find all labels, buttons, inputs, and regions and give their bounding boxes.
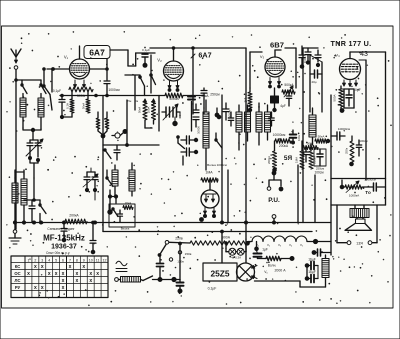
label PU <box>268 197 280 204</box>
IFT3 cap <box>269 112 275 126</box>
svg-text:900А: 900А <box>222 236 231 240</box>
capacitor 250cm <box>201 88 220 108</box>
svg-text:12: 12 <box>103 258 107 262</box>
filter cap 1 <box>305 258 318 270</box>
osc switch a <box>139 76 145 96</box>
tuning capacitor C1 section b <box>30 140 41 157</box>
svg-text:Вишка: Вишка <box>121 227 130 231</box>
wire x136 <box>128 53 155 66</box>
svg-text:x: x <box>75 278 78 284</box>
svg-text:500А: 500А <box>333 94 337 101</box>
svg-text:V₄: V₄ <box>335 53 340 58</box>
svg-text:6A7: 6A7 <box>89 48 105 58</box>
wire 43 plate <box>350 52 386 59</box>
svg-text:x: x <box>75 271 78 277</box>
ground <box>9 224 21 244</box>
svg-text:ЛС: ЛС <box>15 278 21 283</box>
svg-text:0,1µF: 0,1µF <box>142 48 150 52</box>
wire dropper to heaters <box>248 242 251 244</box>
label V3 <box>260 54 265 59</box>
pickup lower terminal <box>272 215 276 223</box>
resistor 50kA h <box>315 135 330 144</box>
wire x246 down <box>245 48 247 223</box>
wire 6A7 to right <box>110 49 128 51</box>
coil interstage <box>309 108 316 145</box>
tuning cap arrow <box>26 139 43 156</box>
wire x191 down <box>191 102 193 132</box>
band switch S1a <box>21 80 27 94</box>
svg-text:x: x <box>34 285 37 291</box>
tuning capacitor C1 section a <box>27 140 33 157</box>
svg-text:200кА: 200кА <box>69 214 79 218</box>
svg-text:x: x <box>34 264 37 270</box>
wire x44 down <box>50 95 52 111</box>
svg-text:x: x <box>55 271 58 277</box>
caption tiny <box>46 251 70 255</box>
selector tap 150 <box>178 251 191 256</box>
cap 100cm <box>356 139 367 156</box>
svg-text:1000см: 1000см <box>108 88 120 92</box>
pickup jack closed <box>279 187 283 191</box>
label V6 <box>264 270 268 274</box>
svg-text:x: x <box>82 264 85 270</box>
svg-text:см: см <box>135 99 138 103</box>
svg-text:x: x <box>62 271 65 277</box>
volume pot <box>282 83 295 97</box>
resistor 200kA bus <box>65 214 87 224</box>
svg-text:РУ: РУ <box>15 285 21 290</box>
oscillator trimmer bars <box>162 107 180 117</box>
cap 10000cm <box>331 127 350 140</box>
svg-text:x: x <box>41 264 44 270</box>
label V1 <box>64 55 69 60</box>
node below tuning cap <box>29 157 40 179</box>
wire antenna branch <box>15 79 41 82</box>
oscillator coil tall <box>197 100 210 170</box>
label 6A7 second <box>191 51 212 60</box>
tube V1 6A7 <box>70 59 90 79</box>
dial lamp link <box>236 251 237 253</box>
tube V3 6B7 <box>265 57 285 77</box>
tone cap <box>362 183 386 191</box>
wire x183 down <box>182 156 184 165</box>
resistor 1MA h <box>201 178 218 182</box>
labels 25n cm <box>127 99 139 103</box>
label 1uF heater <box>262 248 268 252</box>
svg-text:5Я: 5Я <box>284 155 293 162</box>
filter cap 2 <box>305 270 318 283</box>
dial lamp return <box>244 243 246 251</box>
wire x204 down <box>203 108 205 114</box>
resistor under V1 <box>69 87 93 98</box>
coil L1 <box>20 94 26 129</box>
43 cathode leads <box>343 80 358 87</box>
svg-text:2000 А: 2000 А <box>274 269 286 273</box>
IFT2 cap <box>228 112 234 126</box>
wire output top <box>331 178 386 180</box>
V3 bypass cap <box>271 88 279 112</box>
label V4 <box>335 53 340 58</box>
mains choke <box>118 277 140 283</box>
svg-text:1МА: 1МА <box>205 171 213 175</box>
resistor 200kA v <box>267 141 277 172</box>
tube V6 25Z5 <box>237 263 255 281</box>
svg-text:100кА: 100кА <box>313 156 317 164</box>
svg-text:x: x <box>27 271 30 277</box>
resistor R1b vertical <box>82 92 91 113</box>
heater cap <box>254 251 262 259</box>
diode leads <box>200 207 216 221</box>
svg-text:10000см: 10000см <box>364 178 375 182</box>
svg-text:Tо: Tо <box>365 190 371 195</box>
label 6A7 box <box>84 46 110 59</box>
wave-change switch <box>39 200 46 222</box>
svg-text:5000А: 5000А <box>169 97 179 101</box>
svg-text:9: 9 <box>83 258 85 262</box>
capacitor in box <box>118 210 123 222</box>
tone box bottom <box>331 204 386 206</box>
switch b2 <box>103 149 111 159</box>
wire under rectifier <box>255 278 326 288</box>
label 10000cm small <box>364 178 375 182</box>
switch in box <box>112 208 118 217</box>
svg-text:MF-125kHz: MF-125kHz <box>43 234 85 243</box>
label 20kA <box>201 94 209 98</box>
node C2 <box>60 113 72 119</box>
wire 25Z5 top b <box>245 223 247 264</box>
cap below <box>303 148 309 163</box>
svg-text:250к: 250к <box>345 147 349 154</box>
node trimmer <box>173 112 180 126</box>
svg-text:x: x <box>89 271 92 277</box>
dial lamp 1 <box>229 248 236 255</box>
svg-text:x: x <box>41 285 44 291</box>
wire x193 <box>192 47 195 114</box>
osc switch <box>215 133 222 148</box>
svg-text:Схематич. фидинг: Схематич. фидинг <box>47 227 75 231</box>
pickup terminal top <box>272 171 276 175</box>
cap 20uF <box>310 70 322 84</box>
svg-text:V₂: V₂ <box>157 58 162 63</box>
black cap <box>290 130 297 144</box>
svg-text:x: x <box>69 264 72 270</box>
svg-text:3: 3 <box>41 258 43 262</box>
capacitor right of V3 <box>299 46 307 68</box>
svg-text:220в: 220в <box>175 237 183 241</box>
band switch S1b <box>40 80 46 94</box>
coil L4 <box>15 170 27 222</box>
svg-text:x: x <box>89 278 92 284</box>
svg-text:10: 10 <box>89 258 93 262</box>
V3 cathode leads <box>269 78 281 88</box>
svg-text:20µ: 20µ <box>311 80 316 84</box>
resistor 200kA h <box>275 139 291 148</box>
caps below V2 <box>193 104 219 127</box>
coil L2 <box>38 94 44 130</box>
svg-text:200кА: 200кА <box>267 156 271 164</box>
wires x310 x322 <box>310 55 322 112</box>
trimmer node <box>143 63 147 67</box>
wire x52 <box>51 69 53 92</box>
dial lamp 2 <box>237 248 244 255</box>
tube V4 diode <box>201 190 219 208</box>
capacitor bus cm <box>183 96 204 100</box>
label Voln <box>268 264 277 268</box>
svg-text:50кА: 50кА <box>82 103 86 109</box>
svg-text:100А: 100А <box>147 107 151 114</box>
capacitor 1000cm <box>104 59 120 96</box>
svg-text:13Я: 13Я <box>356 242 363 246</box>
svg-text:1МА: 1МА <box>295 157 299 163</box>
resistor 100kA v <box>309 144 317 169</box>
chassis cap 01uF <box>177 280 217 294</box>
filter choke <box>322 255 329 278</box>
voltage selector circle <box>165 241 190 245</box>
line cap <box>157 257 164 282</box>
coupling caps stack b <box>181 148 198 156</box>
trimmer label <box>142 48 150 52</box>
caption small <box>47 227 75 231</box>
svg-text:4µF: 4µF <box>280 104 286 108</box>
cap b2 <box>114 145 120 160</box>
label 220V <box>175 237 183 241</box>
svg-text:P.U.: P.U. <box>268 197 280 204</box>
svg-text:4: 4 <box>48 258 50 262</box>
label 13R <box>356 242 363 246</box>
resistor R1a vertical <box>66 92 75 113</box>
svg-text:16µF: 16µF <box>308 270 316 274</box>
IF transformer 2 primary <box>236 105 242 150</box>
mains plug <box>115 278 119 282</box>
cap 400cm <box>286 92 292 106</box>
resistor 900 ohm dropper <box>190 241 249 245</box>
wire V1 plate <box>79 46 81 59</box>
oscillator trimmer arrow <box>163 104 178 120</box>
coil L5 <box>112 165 118 196</box>
wire V2 plate <box>173 48 175 61</box>
wire x222 long <box>221 95 223 223</box>
heater cap node <box>255 242 259 251</box>
svg-text:250см: 250см <box>210 93 220 97</box>
wire to V1 grid <box>47 68 70 71</box>
tuning gang 2 wires <box>87 168 95 200</box>
heater end <box>307 239 331 243</box>
bus AVC <box>60 94 165 97</box>
speaker terminal right <box>368 241 377 245</box>
switch near stack <box>177 136 185 149</box>
heater end cap <box>312 249 331 256</box>
label lamps <box>231 256 241 260</box>
wire x151 <box>150 55 152 93</box>
wire 25Z5 top a <box>221 230 224 263</box>
svg-text:4в-0,3А: 4в-0,3А <box>231 256 241 260</box>
resistor 1MA v <box>295 141 305 169</box>
box 25Z5 <box>203 263 237 281</box>
box with cap 250cm <box>314 149 326 171</box>
wire diode top <box>209 180 211 190</box>
wire x159 <box>158 96 160 132</box>
svg-text:Спыт 00в ль р.у.: Спыт 00в ль р.у. <box>46 251 70 255</box>
coil L3 <box>12 170 18 222</box>
resistor heater string <box>258 256 295 260</box>
caption MF <box>43 234 85 243</box>
caption year <box>51 244 77 251</box>
svg-text:1: 1 <box>27 258 29 262</box>
wire filter <box>307 266 318 279</box>
svg-text:20кА: 20кА <box>125 201 131 205</box>
svg-text:0,1µF: 0,1µF <box>53 89 61 93</box>
svg-text:x: x <box>48 271 51 277</box>
tube V5 43 <box>340 59 361 80</box>
node osc <box>217 115 221 119</box>
resistor 250kA v <box>345 136 355 166</box>
speaker frame right <box>376 205 378 243</box>
heater bumps <box>248 236 307 242</box>
svg-text:6A7: 6A7 <box>198 51 211 60</box>
svg-text:0,1А: 0,1А <box>66 103 70 109</box>
cap on bus 1 <box>61 224 67 242</box>
switch-resistor box <box>109 204 135 227</box>
svg-text:110в: 110в <box>177 259 184 263</box>
IF transformer 3 primary <box>256 103 262 145</box>
node x103 <box>96 96 109 151</box>
wire x366 <box>359 60 366 180</box>
svg-text:x: x <box>62 285 65 291</box>
wire x331 long <box>330 95 332 255</box>
V1 cathode leads <box>74 80 86 88</box>
wire x303 <box>298 48 303 223</box>
selector arm <box>158 245 166 257</box>
label V2 <box>157 58 162 63</box>
bus main lower <box>103 150 312 232</box>
trimmer capacitor <box>142 53 148 63</box>
wire trimmer top bus <box>303 47 318 49</box>
label 1000kA <box>349 194 360 198</box>
resistor 5000A in bus <box>165 93 183 101</box>
osc switch b <box>150 74 156 85</box>
speaker cone <box>345 224 372 231</box>
svg-text:7: 7 <box>69 258 71 262</box>
bullet node <box>108 198 112 214</box>
wire x228 <box>227 170 229 223</box>
svg-text:50кА: 50кА <box>318 135 326 139</box>
dropper vertical <box>179 242 182 279</box>
svg-text:Волна 1000см: Волна 1000см <box>207 163 227 167</box>
label To <box>365 190 371 195</box>
switch S3 <box>106 170 113 187</box>
output transformer <box>350 205 369 218</box>
tuning gang 2b <box>83 172 98 192</box>
dial lamp wires <box>225 242 229 252</box>
speaker frame left <box>337 205 347 243</box>
svg-text:Волн.: Волн. <box>268 264 277 268</box>
label small b3 <box>121 227 130 231</box>
coupling caps stack a <box>181 136 198 144</box>
trimmers upper right <box>305 48 321 67</box>
resistor 20kA in box <box>123 201 133 210</box>
wire x135 <box>134 75 136 110</box>
label 2000A <box>274 269 286 273</box>
label 5R <box>284 155 293 162</box>
pickup jack open <box>267 187 271 191</box>
node junction coils <box>23 128 41 140</box>
wire x296 <box>285 48 296 88</box>
svg-text:150в: 150в <box>185 252 192 256</box>
cathode cap 10uF <box>341 88 361 108</box>
wire y145 <box>103 100 159 146</box>
svg-text:5: 5 <box>55 258 57 262</box>
svg-text:8: 8 <box>76 258 78 262</box>
svg-text:100к: 100к <box>297 134 301 141</box>
svg-text:V₁: V₁ <box>64 55 69 60</box>
wire antenna down <box>15 70 17 230</box>
V2 cathode leads <box>168 81 179 91</box>
svg-text:11: 11 <box>96 258 100 262</box>
svg-text:x: x <box>62 278 65 284</box>
svg-text:КС: КС <box>15 264 21 269</box>
svg-text:500кА: 500кА <box>284 83 294 87</box>
speaker terminal left <box>347 241 351 245</box>
svg-text:V₃: V₃ <box>260 54 265 59</box>
label 100kA rot <box>297 134 301 141</box>
osc cap <box>223 103 232 120</box>
label 10000cm <box>273 133 286 137</box>
selector tap 110 <box>169 258 184 264</box>
band table <box>11 256 108 298</box>
svg-text:6В7: 6В7 <box>270 41 284 50</box>
label Volna <box>207 163 227 167</box>
switch S2 <box>43 68 50 95</box>
label TNR 177 U <box>331 39 372 48</box>
node cathode <box>340 107 344 112</box>
resistor x153 <box>147 99 156 124</box>
label 1MA <box>205 171 213 175</box>
tube V2 6A7 <box>164 61 184 81</box>
resistor x145 <box>138 99 153 128</box>
svg-text:1936-37: 1936-37 <box>51 244 77 251</box>
svg-text:50кА: 50кА <box>138 107 142 113</box>
top bus to 6B7 <box>150 47 246 50</box>
coil L6 <box>129 163 135 196</box>
node L5 L6 <box>108 190 117 203</box>
tone pot <box>340 180 362 193</box>
svg-text:20кА: 20кА <box>201 94 209 98</box>
V3 bias resistor <box>243 88 252 112</box>
wire x128 down <box>127 50 129 66</box>
cap on bus 2 <box>90 221 96 254</box>
svg-text:1000кА: 1000кА <box>349 194 360 198</box>
IF transformer 3 secondary <box>265 105 271 140</box>
V3 frame wires <box>250 52 262 88</box>
svg-text:1µF: 1µF <box>262 248 268 252</box>
svg-text:0,1µF: 0,1µF <box>208 287 217 291</box>
capacitor C2 <box>53 89 65 117</box>
mains switch <box>141 276 181 281</box>
heater labels <box>256 243 304 247</box>
label 4uF <box>280 104 286 108</box>
label 43 <box>360 51 368 58</box>
svg-text:ОС: ОС <box>14 271 20 276</box>
wire V1 sides <box>90 68 109 71</box>
mains node <box>172 277 176 281</box>
resistor 500A v <box>333 86 344 107</box>
svg-text:200кА: 200кА <box>279 144 289 148</box>
rectifier arrows <box>252 266 258 279</box>
antenna <box>11 49 21 63</box>
IF transformer 2 secondary <box>245 105 251 141</box>
antenna terminal <box>14 66 18 70</box>
label 100cm2 <box>314 171 323 223</box>
